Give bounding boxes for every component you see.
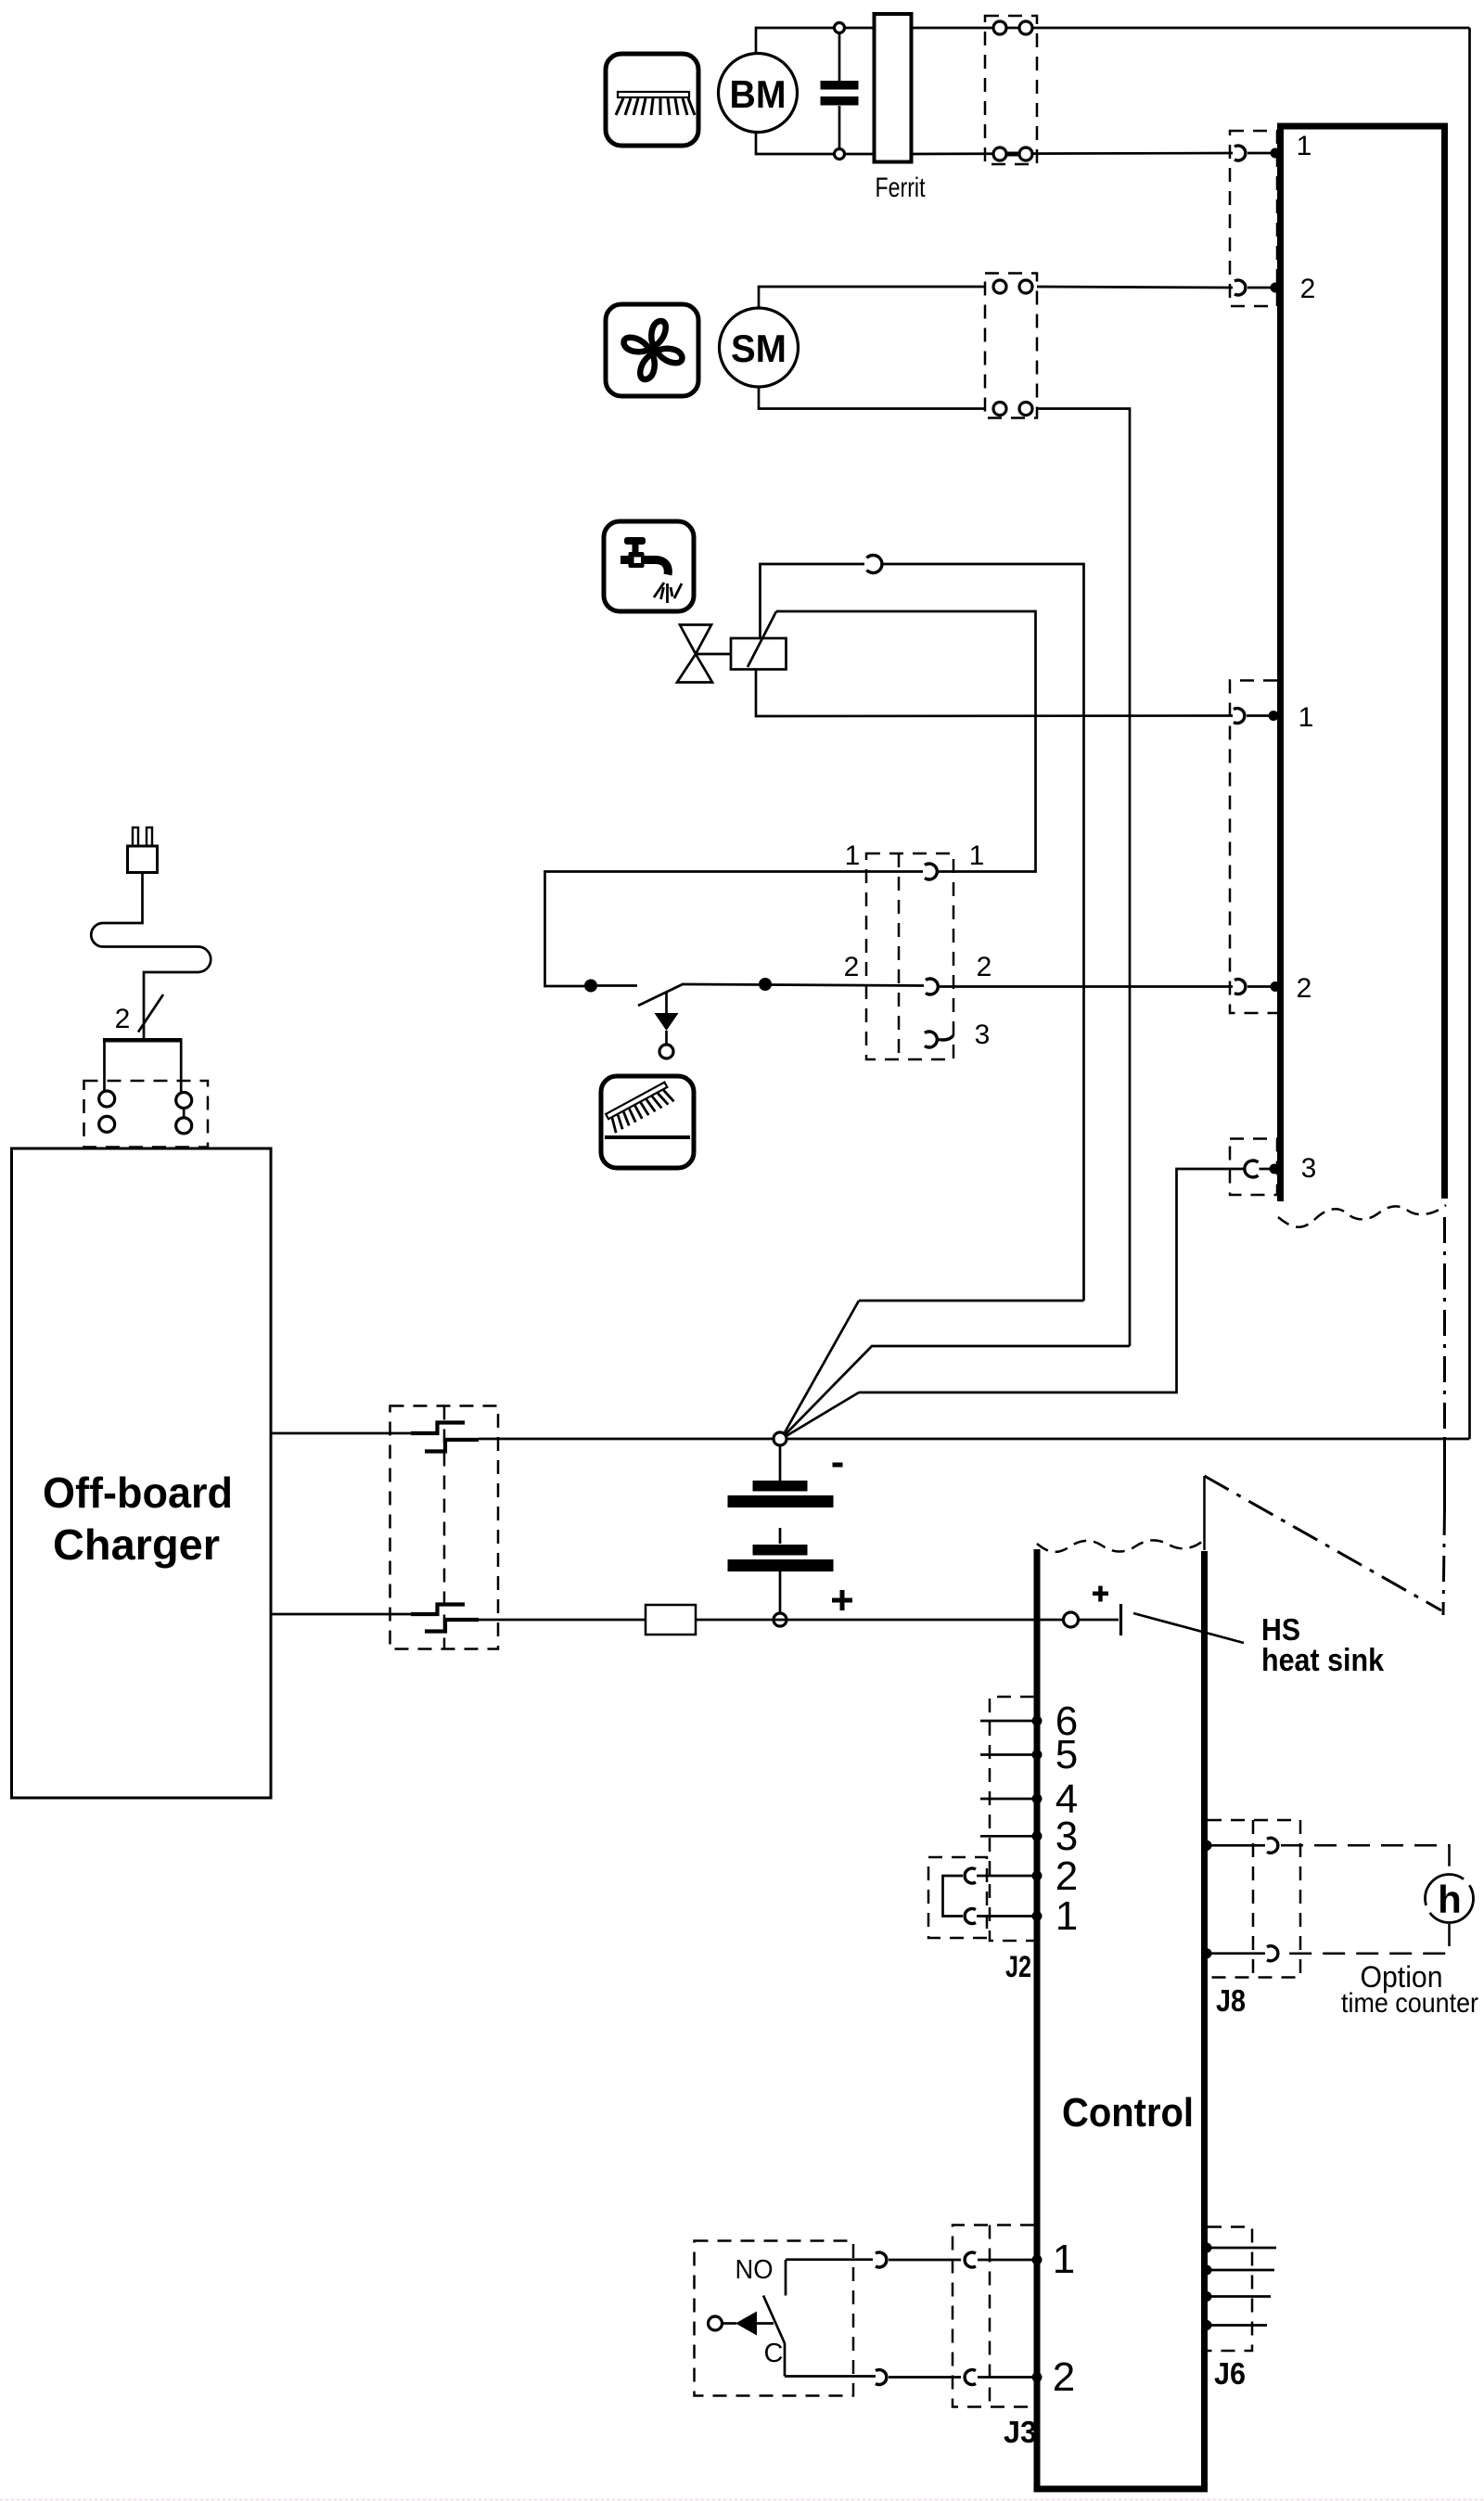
node J8 pin 1 (dot) (1202, 1840, 1212, 1851)
brush lift icon (601, 1076, 694, 1168)
charger box (12, 1148, 272, 1798)
contact pin 2 (1235, 280, 1246, 295)
svg-text:1: 1 (1053, 2237, 1075, 2282)
node: battery minus (774, 1432, 787, 1445)
svg-text:NO: NO (736, 2255, 774, 2285)
svg-text:SM: SM (731, 327, 787, 370)
contact lower pin 1 (1234, 709, 1245, 724)
connector (SM inline) (985, 274, 1037, 418)
wire: J8 pin 2 (1208, 1952, 1265, 1955)
svg-text:2: 2 (1300, 274, 1316, 304)
switch NO contact (786, 2260, 873, 2296)
node pin 2 (dot) (1271, 283, 1281, 293)
wire: battery minus bus (479, 1438, 1470, 1441)
contact J8 pin 1 (1267, 1838, 1278, 1853)
mains plug (128, 827, 158, 873)
wire: pin 2 to box pin 2 (940, 985, 1233, 988)
wire: SM bottom lead (759, 387, 985, 409)
battery B1 (728, 1445, 843, 1613)
connector X3 on machine body (pin 1 of lower group) (1230, 681, 1277, 1014)
tap icon (water supply symbol) (604, 521, 694, 611)
connector J3 (dashed) (953, 2225, 1034, 2407)
svg-text:3: 3 (1055, 1814, 1078, 1859)
switch common (785, 2343, 876, 2377)
svg-text:3: 3 (1301, 1153, 1317, 1184)
contact (inline connector on valve wire) (867, 556, 882, 573)
wire: stub pin 2 (977, 1875, 1034, 1878)
wire: solenoid + (to battery minus fan-out) (761, 564, 865, 638)
svg-text:1: 1 (1297, 131, 1312, 161)
svg-text:1: 1 (969, 840, 985, 871)
svg-text:1: 1 (845, 840, 861, 871)
wire: valve stem link (696, 653, 731, 656)
wire: battery plus bus (479, 1619, 1065, 1622)
contact J3 pin 1 (board side) (965, 2252, 976, 2267)
solenoid coil Y1 (731, 611, 787, 670)
node pin 1 (dot) (1271, 148, 1281, 159)
wire: J3 pin 1 stub (978, 2259, 1034, 2262)
break (wavy) at control top (1037, 1540, 1203, 1552)
valve (manual valve bowtie) (677, 625, 712, 683)
svg-text:Ferrit: Ferrit (876, 173, 927, 203)
brush icon (brush deck symbol) (606, 54, 698, 146)
wire: SM bottom bus, drop to battery minus fan-out (1037, 409, 1130, 1347)
control board outline (1034, 1549, 1209, 2493)
contact lower pin 2 (1235, 980, 1246, 994)
contact J2 pin 2 (965, 1868, 976, 1883)
svg-text:Control: Control (1062, 2090, 1194, 2135)
wire: top bus from ferrite to right margin (912, 27, 1470, 30)
connector X4 on machine body (pin 3) (1230, 1139, 1277, 1196)
svg-text:J8: J8 (1216, 1983, 1246, 2018)
svg-text:J6: J6 (1214, 2356, 1246, 2391)
wire: pin3 feed from battery minus fan-out (859, 1169, 1245, 1392)
connector (BM inline) (985, 16, 1037, 164)
wire: BM top lead (756, 28, 838, 54)
svg-text:2: 2 (1297, 973, 1312, 1004)
connector J2 (dashed) (990, 1697, 1034, 1941)
pin stubs J2 6..3 (980, 1720, 1034, 1723)
wire: stub pin 1 (977, 1915, 1034, 1917)
wire: solenoid bottom return (756, 670, 1233, 717)
mains cord (91, 873, 211, 1039)
wire: charger plus output (271, 1613, 411, 1616)
svg-text:2: 2 (1055, 1853, 1078, 1899)
wire: fan-out diagonal to valve wire (784, 1301, 859, 1434)
wire: contact to pin 3 (1260, 1168, 1272, 1171)
switch (brush lift microswitch) (584, 978, 924, 1006)
svg-text:2: 2 (977, 952, 992, 982)
svg-text:h: h (1438, 1878, 1462, 1921)
svg-text:C: C (764, 2339, 784, 2368)
pin dots J6 (1202, 2243, 1212, 2253)
wire: contact to pin 2 (1247, 287, 1273, 289)
machine boundary continuation (dash-dot) (1205, 1217, 1445, 1615)
contact pin 2 (harness side) (876, 2370, 887, 2385)
machine body outline (thick box) (1281, 126, 1445, 1201)
svg-text:HS: HS (1261, 1612, 1300, 1647)
contact pin 3 (1245, 1161, 1259, 1177)
wire: solenoid slash wire (to lift switch) (776, 611, 1036, 872)
svg-text:2: 2 (115, 1004, 131, 1034)
charger output connector (blade terminals) (390, 1406, 499, 1649)
svg-text:1: 1 (1055, 1893, 1078, 1939)
node lower pin 1 (dot) (1269, 711, 1279, 721)
page scan artifact line (0, 2499, 1484, 2501)
svg-text:J2: J2 (1005, 1950, 1031, 1983)
switch actuator arrow (655, 993, 679, 1058)
pin stubs J6 (1208, 2247, 1276, 2250)
wire: BM top bus to ferrite (841, 27, 876, 30)
wire: BM bottom to ferrite (841, 153, 876, 156)
wire: SM top lead to connector (759, 287, 985, 308)
wire: contact to lower pin 1 (1247, 714, 1270, 717)
connector X1 on machine body (pins 1,2) (1230, 131, 1277, 306)
wire: SM top bus to box pin 2 (1037, 287, 1233, 288)
wire: BM bottom lead (756, 132, 838, 154)
node lower pin 2 (dot) (1271, 981, 1281, 992)
svg-text:time counter: time counter (1341, 1988, 1478, 2019)
wire: valve fan-out horizontal (859, 1300, 1084, 1302)
contact (3-pin connector pin 2) (926, 979, 938, 994)
node pin 3 (dot) (1270, 1164, 1280, 1174)
contact J2 pin 1 (965, 1909, 976, 1924)
label + (heat sink) (1093, 1586, 1108, 1602)
svg-text:heat sink: heat sink (1261, 1643, 1384, 1678)
svg-text:5: 5 (1055, 1732, 1078, 1777)
switch blade (763, 2296, 785, 2344)
break (wavy) at machine body bottom (1278, 1205, 1446, 1227)
wire: pin1 to switch (545, 872, 924, 987)
svg-text:1: 1 (1298, 702, 1314, 733)
charger input connector (84, 1038, 209, 1148)
node J3 pin 2 (dot) (1032, 2372, 1043, 2382)
pedal switch (dashed box) (695, 2241, 854, 2396)
wire: right margin drop (to battery minus) (1468, 28, 1471, 1439)
svg-text:BM: BM (730, 72, 787, 116)
wire: pin 2 harness (889, 2376, 961, 2379)
fuse F1 (646, 1605, 696, 1635)
svg-text:2: 2 (1053, 2354, 1075, 2400)
wire: bottom bus from ferrite to connector X1 (912, 153, 1234, 154)
heat sink HS terminal (1064, 1604, 1121, 1635)
svg-text:3: 3 (975, 1020, 991, 1050)
svg-text:Charger: Charger (53, 1520, 220, 1569)
wire: contact to lower pin 2 (1247, 985, 1273, 988)
capacitor C (motor suppression) (821, 23, 859, 160)
wire: J3 pin 2 stub (978, 2376, 1034, 2379)
svg-text:J3: J3 (1004, 2415, 1037, 2449)
pin dots J2 (1032, 1716, 1043, 1726)
wire: option loop (dashed) to hour counter (1281, 1845, 1450, 1953)
svg-text:Off-board: Off-board (43, 1469, 233, 1517)
wire: charger minus output (271, 1432, 411, 1435)
node J3 pin 1 (dot) (1032, 2255, 1043, 2265)
contact pin 1 (1235, 146, 1246, 160)
wire: contact to pin 1 (1247, 152, 1273, 155)
connector J6 (dashed) (1208, 2227, 1252, 2352)
pedal actuator (709, 2312, 774, 2336)
label + (battery) (832, 1590, 852, 1610)
callout line to HS label (1133, 1613, 1244, 1643)
motor BM (719, 54, 798, 133)
node J8 pin 2 (dot) (1202, 1948, 1212, 1958)
fan icon (suction motor symbol) (606, 304, 698, 396)
contact J3 pin 2 (board side) (965, 2370, 976, 2385)
contact (3-pin connector pin 1) (925, 864, 937, 879)
connector J8 (dashed) (1208, 1820, 1300, 1978)
svg-text:2: 2 (844, 952, 860, 982)
motor SM (720, 308, 799, 387)
wire: fan-out diagonal to pin3 wire (785, 1392, 859, 1437)
ferrite filter "Ferrit" (875, 14, 927, 203)
connector X2 (3-pin, brush lift) (866, 853, 953, 1059)
wire: J8 pin 1 (1208, 1844, 1265, 1847)
node: battery plus (774, 1613, 787, 1626)
contact pin 1 (harness side) (876, 2252, 887, 2267)
wire: valve wire continues right then down (882, 564, 1084, 1301)
wire: pin 1 harness (889, 2259, 961, 2262)
hour counter h (1426, 1875, 1474, 1923)
contact J8 pin 2 (1267, 1946, 1278, 1961)
cable marker: 2 conductors (115, 994, 163, 1034)
contact (3-pin connector pin 3, unused) (925, 1032, 953, 1047)
J2 pins 1-2 jumper plug (dashed) (928, 1857, 987, 1938)
wire: jumper loop pins 1-2 (943, 1876, 964, 1917)
wire: fan-out diagonal to SM wire (784, 1346, 1130, 1436)
